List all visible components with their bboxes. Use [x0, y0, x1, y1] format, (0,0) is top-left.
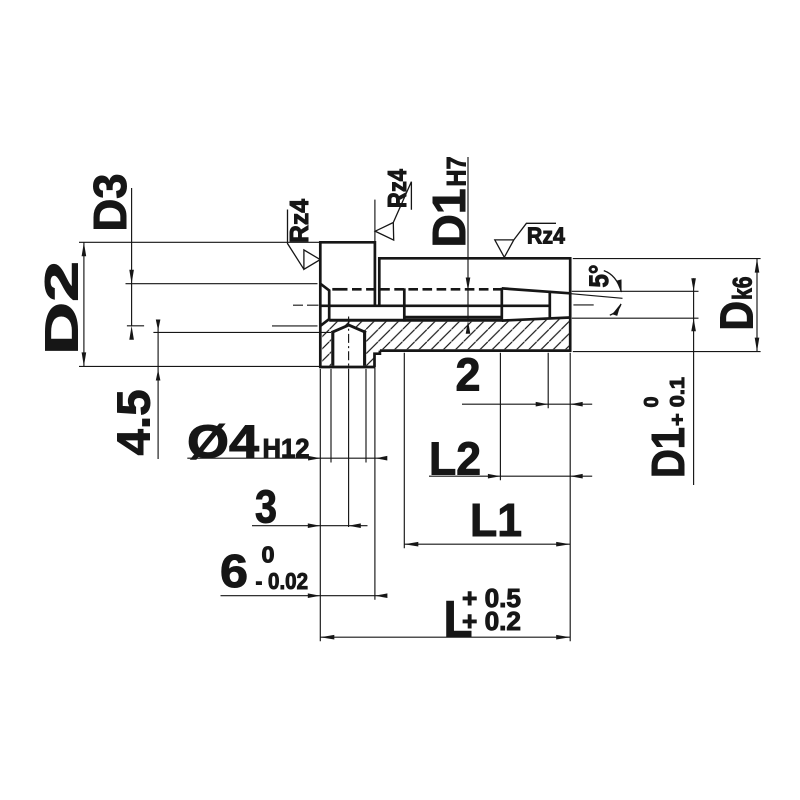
inner vertical near exit [548, 291, 551, 318]
svg-text:D3: D3 [84, 174, 136, 232]
svg-text:D: D [711, 301, 763, 331]
bore entry wall bottom [328, 305, 331, 320]
flange outline [320, 241, 375, 368]
pin hole drill cone [331, 325, 366, 333]
svg-text:L1: L1 [470, 494, 522, 546]
bore entry chamfer bottom [320, 319, 329, 326]
pin hole right wall [363, 332, 366, 366]
part axis centerline left [293, 304, 319, 306]
bore bottom edge (section) [329, 319, 502, 322]
svg-text:0: 0 [262, 542, 275, 568]
svg-text:D2: D2 [36, 261, 88, 355]
pin hole left wall [331, 332, 334, 366]
inner vertical at bore step [403, 288, 406, 321]
part axis centerline right [573, 304, 593, 306]
svg-text:0: 0 [641, 397, 663, 408]
svg-text:5°: 5° [584, 265, 614, 288]
inner vertical at taper start [500, 288, 503, 322]
inner step line [404, 316, 502, 319]
svg-text:D1: D1 [423, 189, 475, 248]
svg-text:Ø4: Ø4 [187, 416, 259, 468]
svg-text:2: 2 [456, 349, 481, 401]
body left face (upper) [378, 257, 381, 307]
flange right face (upper) [374, 241, 377, 307]
svg-text:D1: D1 [642, 427, 694, 478]
svg-text:Rz4: Rz4 [527, 223, 565, 249]
pin hole centerline [348, 317, 350, 375]
svg-text:+ 0.1: + 0.1 [667, 377, 689, 426]
svg-text:H7: H7 [442, 157, 472, 187]
svg-text:- 0.02: - 0.02 [256, 568, 309, 594]
svg-text:6: 6 [220, 545, 248, 597]
svg-text:Rz4: Rz4 [284, 198, 314, 243]
taper bottom edge 5deg [502, 318, 570, 321]
section hatch lower half [322, 319, 569, 366]
bore entry wall top [328, 290, 331, 308]
svg-text:Rz4: Rz4 [382, 169, 412, 208]
undercut notch at flange-body junction [375, 351, 380, 367]
body outline [378, 257, 571, 352]
svg-text:4.5: 4.5 [108, 390, 160, 456]
svg-text:k6: k6 [728, 277, 758, 301]
svg-text:+ 0.2: + 0.2 [462, 606, 521, 636]
bore hidden line (dashed, top half) [332, 288, 347, 291]
taper top edge 5deg [502, 288, 570, 293]
svg-text:H12: H12 [263, 434, 310, 464]
svg-text:3: 3 [255, 481, 277, 533]
slot line at axis [320, 304, 550, 307]
bore entry chamfer top [320, 284, 329, 291]
